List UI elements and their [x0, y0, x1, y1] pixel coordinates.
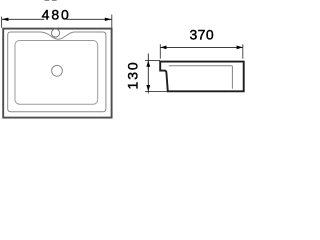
- faucet hole circle: [51, 29, 59, 37]
- basin inner rect: [15, 41, 98, 105]
- dimension 480 extension line left: [1, 17, 3, 28]
- dimension 480 line: [2, 18, 45, 20]
- dimension 130 extension line bottom: [145, 90, 168, 92]
- sink outer rect: [3, 29, 111, 118]
- svg-text:480: 480: [42, 6, 71, 22]
- svg-text:130: 130: [124, 60, 140, 89]
- dimension 130 line: [147, 54, 149, 94]
- side profile outline: [160, 62, 244, 92]
- side profile inner basin line: [169, 66, 233, 89]
- sink rim (rounded rect with faucet dip): [8, 32, 106, 112]
- dimension 370 arrow right: [237, 46, 243, 50]
- dimension 480 arrow right: [105, 18, 112, 21]
- dimension 370 extension line left: [159, 44, 161, 58]
- drain circle: [52, 65, 63, 76]
- dimension 130 arrow up: [146, 61, 150, 67]
- cropped glyph remnant dash 2: [52, 0, 57, 1]
- dimension 370 arrow left: [160, 46, 166, 50]
- dimension 130 extension line top: [145, 60, 160, 62]
- dimension 480 extension line right: [111, 15, 113, 29]
- dimension 130 arrow down: [146, 85, 150, 91]
- dimension 370 line: [160, 46, 243, 48]
- cropped glyph remnant dash 1: [45, 0, 50, 1]
- svg-text:370: 370: [189, 26, 214, 42]
- dimension 370 extension line right: [242, 44, 244, 58]
- dimension 480 arrow left: [2, 18, 9, 21]
